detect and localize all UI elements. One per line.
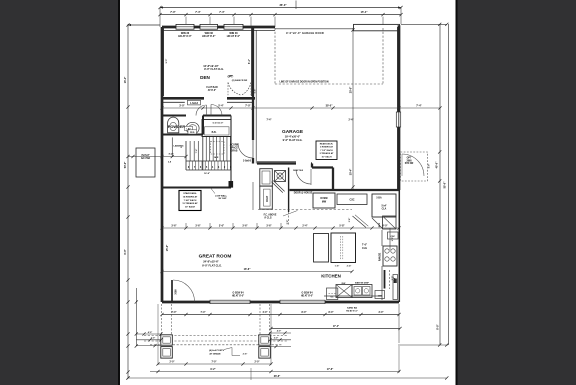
svg-text:F.C. ABOVE: F.C. ABOVE: [264, 214, 277, 217]
svg-text:HD AT 8'-0": HD AT 8'-0": [178, 35, 192, 38]
svg-text:1'-6": 1'-6": [335, 266, 340, 268]
svg-text:B.B.: B.B.: [212, 131, 217, 134]
svg-text:8'-0": 8'-0": [302, 312, 307, 314]
svg-text:HD AT 8'-0": HD AT 8'-0": [301, 295, 313, 298]
svg-text:8'-0": 8'-0": [124, 249, 127, 254]
svg-text:4'-0": 4'-0": [263, 311, 268, 314]
svg-text:HD AT 8'-0": HD AT 8'-0": [232, 295, 244, 298]
svg-text:8'-4": 8'-4": [248, 59, 251, 64]
svg-text:OPT.: OPT.: [229, 76, 234, 78]
svg-text:9'-0"x8'-0" GARAGE DOOR: 9'-0"x8'-0" GARAGE DOOR: [286, 32, 324, 35]
svg-text:8'-0": 8'-0": [329, 312, 334, 314]
svg-text:SAND BA: SAND BA: [347, 306, 357, 309]
svg-text:HD AT 8'-0": HD AT 8'-0": [346, 309, 358, 312]
svg-text:3'x3'x3": 3'x3'x3": [141, 155, 150, 157]
svg-text:3 RISERS AT: 3 RISERS AT: [320, 146, 334, 149]
svg-text:24'-8"x15'-6": 24'-8"x15'-6": [203, 260, 219, 264]
svg-text:7'-0": 7'-0": [245, 105, 251, 108]
svg-text:REF: REF: [379, 222, 381, 227]
svg-text:9'-0" FLAT CLG.: 9'-0" FLAT CLG.: [202, 263, 222, 267]
svg-text:2'-0": 2'-0": [255, 362, 260, 364]
svg-text:16'-8": 16'-8": [204, 173, 210, 175]
svg-text:7'-4": 7'-4": [201, 311, 206, 314]
svg-text:2-8x6-8: 2-8x6-8: [243, 161, 252, 163]
svg-text:CLA: CLA: [382, 208, 387, 211]
svg-text:LOW WALL: LOW WALL: [215, 195, 228, 198]
svg-text:HD AT 8'-0": HD AT 8'-0": [227, 35, 241, 38]
svg-text:40'-0": 40'-0": [436, 161, 439, 169]
svg-text:GREAT ROOM: GREAT ROOM: [199, 254, 232, 260]
svg-text:15'-4": 15'-4": [361, 11, 369, 14]
svg-text:HD AT 8'-0": HD AT 8'-0": [202, 35, 216, 38]
svg-text:DOOR @ HOUSE: DOOR @ HOUSE: [294, 193, 313, 195]
svg-text:10" EACH: 10" EACH: [185, 206, 196, 209]
svg-text:4'-0": 4'-0": [148, 331, 152, 334]
svg-text:10" EACH: 10" EACH: [321, 156, 332, 159]
svg-text:AT 8'-0": AT 8'-0": [208, 89, 216, 92]
svg-text:14 R: 14 R: [214, 156, 219, 159]
svg-text:3'-6": 3'-6": [195, 225, 200, 228]
svg-text:17'-4": 17'-4": [333, 325, 339, 328]
svg-text:SPACE: SPACE: [230, 146, 238, 149]
svg-text:BAR W/ DISP: BAR W/ DISP: [355, 281, 369, 284]
svg-text:2'-4": 2'-4": [302, 225, 307, 228]
svg-text:7'-0": 7'-0": [212, 362, 217, 364]
svg-text:16'-4": 16'-4": [124, 77, 127, 84]
svg-text:12'-8"x9'-10": 12'-8"x9'-10": [203, 64, 219, 68]
svg-text:CMC: CMC: [378, 296, 383, 298]
svg-text:14 RISERS AT: 14 RISERS AT: [183, 195, 198, 198]
svg-text:7'-4": 7'-4": [195, 11, 201, 14]
svg-text:5'-4": 5'-4": [218, 105, 224, 108]
svg-text:2'-4": 2'-4": [347, 265, 352, 268]
svg-text:PED: PED: [190, 132, 195, 134]
svg-text:A/C PAD: A/C PAD: [141, 157, 151, 160]
svg-text:2'-8": 2'-8": [287, 220, 289, 225]
svg-text:LINE OF GARAGE DOOR IN OPEN PO: LINE OF GARAGE DOOR IN OPEN POSITION: [279, 81, 328, 84]
svg-text:9' CLG: 9' CLG: [264, 217, 272, 219]
svg-text:36'-0": 36'-0": [279, 3, 287, 7]
svg-text:ACORN: ACORN: [230, 144, 239, 147]
svg-text:2 TREADS AT: 2 TREADS AT: [320, 152, 334, 155]
svg-text:CLG: CLG: [362, 247, 367, 250]
svg-text:13 TREADS AT: 13 TREADS AT: [182, 202, 198, 205]
svg-text:(4) 6x6 POSTS: (4) 6x6 POSTS: [209, 349, 224, 352]
svg-text:9'-0" FLAT CLG.: 9'-0" FLAT CLG.: [204, 67, 224, 71]
svg-text:7'-4": 7'-4": [195, 149, 198, 154]
svg-text:16'-8": 16'-8": [244, 268, 252, 271]
svg-text:20'-0": 20'-0": [350, 87, 353, 94]
svg-text:O SDW 84: O SDW 84: [302, 291, 314, 294]
svg-text:9'-0" FLAT CLG.: 9'-0" FLAT CLG.: [283, 138, 303, 142]
svg-text:50'-0": 50'-0": [444, 181, 447, 189]
svg-text:STAIR DATA:: STAIR DATA:: [183, 192, 197, 195]
svg-text:9'-0": 9'-0": [166, 59, 168, 64]
svg-text:3'-6": 3'-6": [219, 225, 224, 228]
svg-text:8'-0": 8'-0": [436, 323, 439, 329]
svg-text:GRAB: GRAB: [231, 149, 238, 152]
svg-text:W/ CAP: W/ CAP: [219, 197, 227, 200]
svg-text:7'-4": 7'-4": [416, 105, 422, 108]
svg-text:3068: 3068: [176, 289, 178, 295]
svg-text:8'-0": 8'-0": [429, 164, 431, 168]
svg-text:9'-8": 9'-8": [255, 89, 257, 94]
svg-text:17'-8": 17'-8": [327, 368, 334, 371]
svg-text:3'-6": 3'-6": [171, 225, 176, 228]
svg-text:AT GRADE: AT GRADE: [209, 353, 221, 356]
svg-text:CSC: CSC: [349, 199, 354, 202]
svg-text:9'-2": 9'-2": [210, 368, 215, 371]
svg-text:7'-0": 7'-0": [169, 154, 174, 156]
svg-text:3'-0": 3'-0": [392, 237, 394, 241]
svg-text:3'-0": 3'-0": [379, 312, 384, 314]
svg-text:(2) 2468 FR DR: (2) 2468 FR DR: [232, 79, 248, 82]
svg-text:5'x4': 5'x4': [382, 205, 387, 208]
svg-text:KITCHEN: KITCHEN: [321, 274, 341, 279]
svg-text:7 3/4" EACH: 7 3/4" EACH: [184, 199, 197, 202]
svg-text:OPT: OPT: [407, 158, 412, 160]
svg-text:GARAGE: GARAGE: [282, 129, 304, 135]
svg-text:36'-8": 36'-8": [274, 375, 281, 378]
svg-text:15'-6": 15'-6": [166, 245, 169, 252]
svg-text:2'-8": 2'-8": [349, 218, 351, 222]
svg-text:1-6x6-8: 1-6x6-8: [190, 103, 199, 105]
svg-text:O SDW 84: O SDW 84: [233, 291, 245, 294]
svg-text:2'-0": 2'-0": [274, 337, 278, 339]
svg-text:MW: MW: [322, 200, 327, 203]
svg-text:4'-0": 4'-0": [277, 330, 281, 333]
svg-text:DEN: DEN: [200, 75, 210, 80]
svg-text:4'-0": 4'-0": [382, 225, 387, 228]
svg-text:3'-0": 3'-0": [179, 105, 185, 108]
svg-text:COAT: COAT: [266, 195, 269, 202]
svg-text:STN DR: STN DR: [405, 163, 414, 165]
svg-text:50'-0": 50'-0": [124, 162, 127, 169]
svg-text:3'-6": 3'-6": [266, 225, 271, 228]
svg-text:7'-0": 7'-0": [172, 312, 177, 314]
svg-text:7'-4": 7'-4": [219, 11, 225, 14]
svg-text:7'-0": 7'-0": [170, 11, 176, 14]
svg-text:2'-0": 2'-0": [170, 362, 175, 364]
svg-text:2868: 2868: [406, 160, 412, 162]
svg-text:5 BA: 5 BA: [376, 197, 382, 200]
svg-text:2'-6": 2'-6": [243, 353, 248, 355]
svg-text:16x4 TILE: 16x4 TILE: [293, 169, 304, 172]
svg-text:5'-4"x6'-0": 5'-4"x6'-0": [213, 122, 224, 125]
svg-text:12'-4": 12'-4": [393, 277, 396, 283]
svg-text:2'-0": 2'-0": [151, 338, 155, 340]
svg-text:REAR DECK:: REAR DECK:: [320, 142, 334, 145]
svg-text:RANGE: RANGE: [379, 252, 382, 261]
svg-text:2'-4": 2'-4": [349, 119, 354, 122]
svg-text:30'-4": 30'-4": [350, 169, 353, 176]
svg-text:7 1/2" EACH: 7 1/2" EACH: [320, 149, 333, 152]
svg-text:5'-8": 5'-8": [339, 225, 344, 228]
svg-text:30'-0": 30'-0": [326, 105, 334, 108]
svg-text:3'-6": 3'-6": [242, 225, 247, 228]
svg-text:FLAT BAR: FLAT BAR: [206, 86, 218, 89]
svg-text:7'-4": 7'-4": [267, 119, 272, 122]
